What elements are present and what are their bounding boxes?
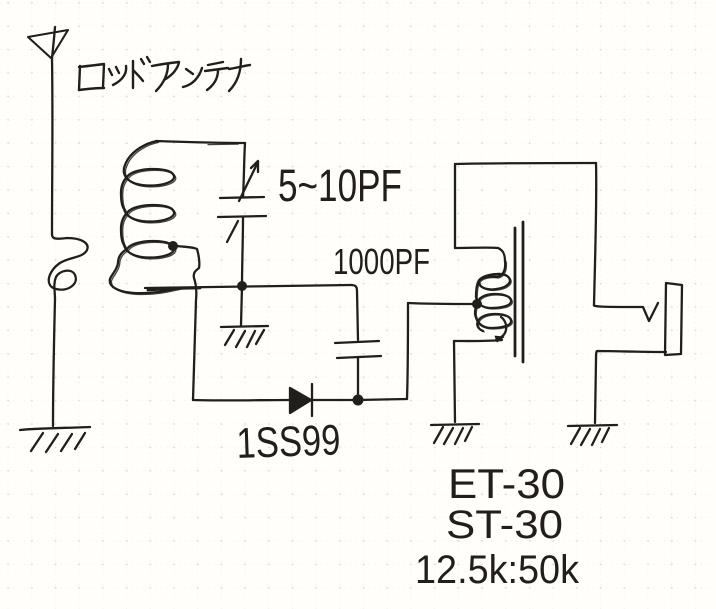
wire: left vertical top (top wire to primary) xyxy=(454,164,456,248)
svg-text:ST-30: ST-30 xyxy=(446,503,563,547)
transformer T1 primary bottom lead xyxy=(454,340,502,341)
antenna lead curl xyxy=(49,234,88,299)
wire: coil top to variable capacitor xyxy=(156,141,245,143)
ground G4 xyxy=(568,425,617,445)
wire: diode bus left segment xyxy=(193,399,289,402)
variable capacitor C1 bottom plate xyxy=(218,216,266,217)
wire: antenna lead down xyxy=(51,58,54,234)
wire: up to transformer tap xyxy=(407,303,408,399)
transformer T1 primary coil xyxy=(475,261,511,331)
variable capacitor C1 arrow xyxy=(227,161,258,242)
svg-text:5~10PF: 5~10PF xyxy=(278,160,402,211)
transformer T1 core xyxy=(515,222,523,362)
transformer T1 coil bottom tail xyxy=(496,317,506,340)
variable capacitor C1 top plate xyxy=(220,197,264,198)
wire: bus corner down into C2 xyxy=(351,285,358,340)
transformer T1 primary top lead xyxy=(455,248,505,261)
ground G2 xyxy=(221,326,268,347)
junction: coil tap xyxy=(168,241,178,251)
svg-text:ET-30: ET-30 xyxy=(448,460,565,507)
wire: left vertical bottom (primary to ground) xyxy=(454,341,455,422)
wire: diode to junction to corner xyxy=(313,399,407,400)
wire: junction down to ground G2 xyxy=(241,286,242,325)
label: rod antenna (katakana) xyxy=(79,57,250,91)
junction: bus / C1 / ground xyxy=(237,281,247,291)
wire: C1 bottom lead to bus xyxy=(242,217,243,286)
wire: C2 bottom lead xyxy=(357,358,359,398)
wire: C1 top lead xyxy=(243,143,245,197)
capacitor C2 bottom plate xyxy=(337,356,381,358)
diode D1 xyxy=(290,384,312,416)
wire: main bottom bus (coil bottom to C2) xyxy=(145,285,351,288)
antenna ANT xyxy=(28,27,68,58)
wire: earphone to ground G4 xyxy=(595,360,596,423)
wire: right to transformer tap xyxy=(408,303,477,304)
wire: earphone bottom lead xyxy=(596,351,666,360)
svg-text:1000PF: 1000PF xyxy=(333,241,430,282)
capacitor C2 top plate xyxy=(335,341,379,343)
svg-text:12.5k:50k: 12.5k:50k xyxy=(415,548,580,592)
wire: transformer top wire xyxy=(455,163,596,164)
ground G3 xyxy=(431,424,479,444)
wire: tap zigzag from coil to diode bus xyxy=(177,246,199,400)
ground G1 xyxy=(20,427,90,452)
svg-text:1SS99: 1SS99 xyxy=(236,416,342,468)
junction: C2 / diode output xyxy=(353,395,364,406)
wire: earphone top lead with v-kink xyxy=(594,303,658,321)
wire: lead to ground G1 xyxy=(53,299,55,426)
wire: right vertical (top wire down to earphone) xyxy=(594,163,596,305)
transformer T1 coil bottom corner fill xyxy=(495,336,504,342)
earphone SP body xyxy=(665,283,682,355)
coil L1 (tuning coil) xyxy=(110,141,179,293)
junction: transformer tap xyxy=(472,299,482,309)
